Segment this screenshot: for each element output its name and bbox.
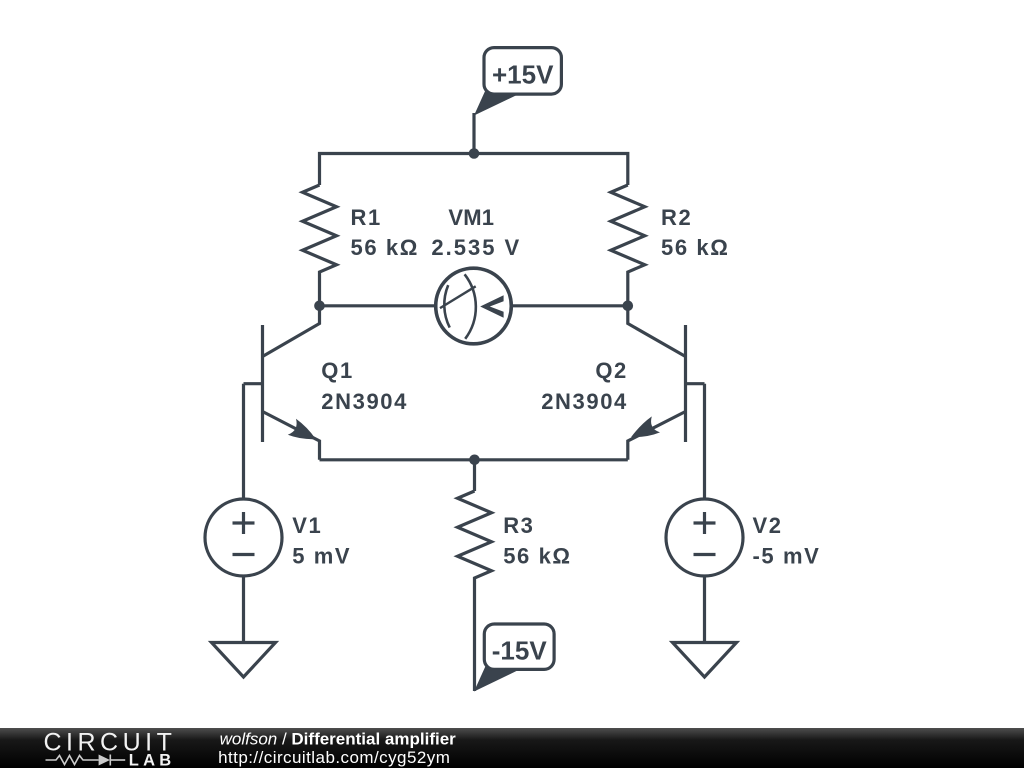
svg-text:-15V: -15V: [492, 636, 548, 666]
svg-text:http://circuitlab.com/cyg52ym: http://circuitlab.com/cyg52ym: [218, 748, 450, 767]
svg-text:Q1: Q1: [321, 358, 354, 383]
svg-text:5 mV: 5 mV: [292, 544, 351, 569]
svg-text:+15V: +15V: [492, 59, 554, 89]
svg-text:V2: V2: [753, 513, 783, 538]
svg-text:-5 mV: -5 mV: [753, 544, 821, 569]
svg-text:VM1: VM1: [448, 205, 494, 230]
svg-text:V1: V1: [292, 513, 322, 538]
svg-text:R3: R3: [503, 513, 534, 538]
svg-text:56 kΩ: 56 kΩ: [503, 544, 571, 569]
svg-text:R2: R2: [661, 205, 692, 230]
svg-text:56 kΩ: 56 kΩ: [351, 235, 419, 260]
svg-text:2N3904: 2N3904: [321, 389, 408, 414]
svg-text:R1: R1: [351, 205, 382, 230]
svg-text:wolfson / Differential amplifi: wolfson / Differential amplifier: [220, 729, 457, 748]
svg-text:LAB: LAB: [129, 752, 176, 768]
svg-text:2N3904: 2N3904: [541, 389, 628, 414]
svg-text:2.535 V: 2.535 V: [431, 235, 521, 260]
svg-text:56 kΩ: 56 kΩ: [661, 235, 729, 260]
svg-text:Q2: Q2: [595, 358, 628, 383]
